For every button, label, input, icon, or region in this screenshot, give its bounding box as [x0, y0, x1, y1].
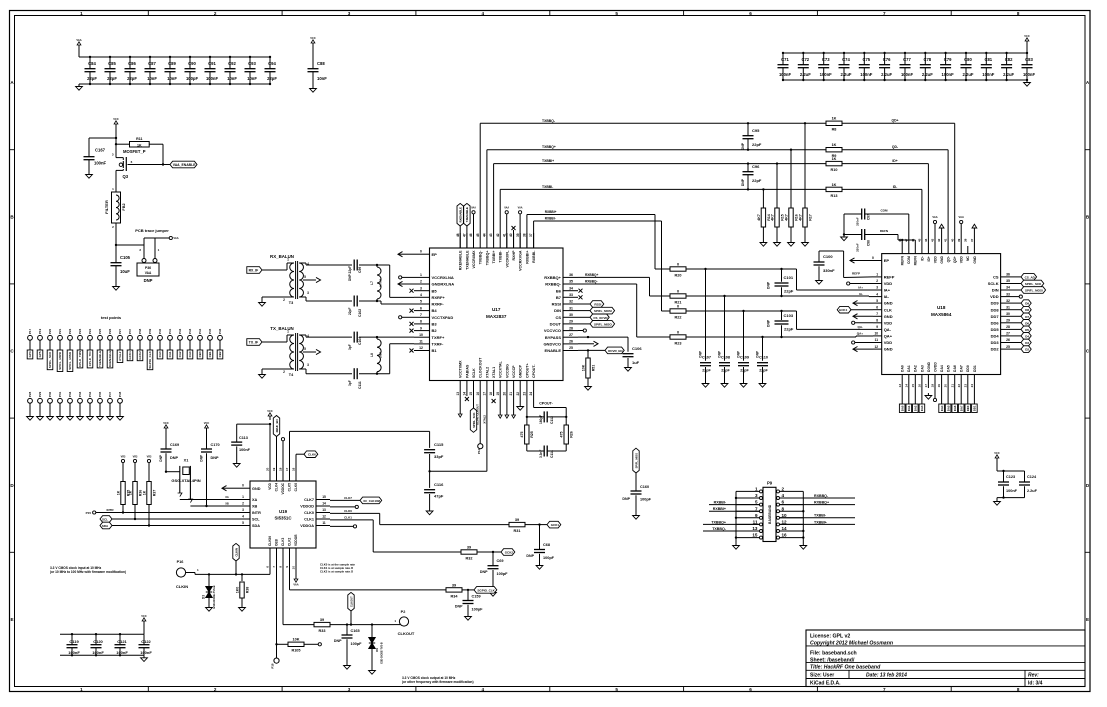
svg-text:C82: C82	[1005, 57, 1013, 62]
capacitor C103 22pF DNP	[767, 311, 794, 337]
svg-text:RXBBQ-: RXBBQ-	[585, 280, 598, 284]
svg-text:L7: L7	[370, 281, 374, 285]
svg-text:35: 35	[1006, 279, 1010, 283]
svg-text:TXBBQ+: TXBBQ+	[542, 145, 556, 149]
svg-text:3: 3	[420, 286, 422, 290]
net label D4	[1014, 333, 1031, 340]
svg-text:19: 19	[272, 467, 276, 471]
svg-text:10K: 10K	[293, 638, 300, 642]
svg-text:DD1: DD1	[973, 405, 977, 411]
svg-text:100pF: 100pF	[497, 572, 509, 576]
ground	[788, 240, 795, 246]
wire top rail	[79, 56, 270, 58]
svg-text:SI5351C: SI5351C	[274, 516, 292, 521]
svg-text:VDDOA: VDDOA	[300, 524, 314, 528]
wire CLK0	[330, 509, 509, 525]
svg-text:RSSI: RSSI	[594, 303, 601, 307]
capacitor C101 22pF DNP	[767, 269, 794, 296]
net label CLKIN	[233, 543, 239, 574]
svg-text:DIN: DIN	[992, 288, 999, 293]
resistor R14 4K7	[757, 188, 771, 240]
svg-text:SCL: SCL	[102, 518, 108, 522]
svg-text:RXRF+: RXRF+	[432, 295, 446, 300]
svg-text:38: 38	[523, 233, 527, 237]
title block	[806, 630, 1085, 687]
svg-text:ID+: ID+	[927, 256, 931, 261]
svg-text:26: 26	[1006, 338, 1010, 342]
svg-text:CLK6: CLK6	[294, 483, 298, 492]
svg-text:1: 1	[755, 487, 758, 492]
svg-text:C170: C170	[211, 443, 220, 447]
capacitor C83 100nF	[1022, 52, 1036, 81]
svg-text:TXBBI+: TXBBI+	[814, 520, 827, 524]
svg-text:22pF: 22pF	[740, 369, 749, 373]
svg-text:TXBBQ+: TXBBQ+	[711, 520, 726, 524]
svg-text:C86: C86	[128, 61, 136, 66]
svg-text:CLK4: CLK4	[275, 483, 279, 492]
net label GCK2	[501, 549, 515, 556]
hier pin GNDVCO	[578, 341, 598, 346]
net label SPIFL_MISO vert	[633, 448, 639, 491]
svg-text:C85: C85	[108, 61, 116, 66]
pin 7	[736, 506, 763, 512]
net label D9	[1014, 300, 1031, 307]
svg-text:DB2: DB2	[218, 351, 222, 357]
capacitor C105 10uF	[111, 245, 131, 284]
svg-text:100nF: 100nF	[1023, 72, 1036, 77]
svg-text:VAA: VAA	[471, 207, 476, 210]
svg-text:47: 47	[463, 233, 467, 237]
wire TXBBQ+	[487, 145, 826, 233]
svg-text:X1: X1	[184, 459, 189, 463]
svg-text:15: 15	[469, 392, 473, 396]
net label D3	[1014, 339, 1031, 346]
ground	[310, 86, 317, 92]
svg-text:D3: D3	[1025, 341, 1029, 345]
svg-text:VCC: VCC	[994, 451, 1000, 455]
svg-text:P41: P41	[168, 328, 172, 333]
svg-text:DD5: DD5	[991, 327, 1000, 332]
svg-text:VCCDIG: VCCDIG	[505, 364, 509, 378]
svg-text:CPOUT+: CPOUT+	[525, 363, 529, 378]
svg-text:5: 5	[615, 11, 618, 16]
no-connect X	[410, 349, 414, 353]
test point P34	[87, 391, 94, 420]
svg-text:3.3nF: 3.3nF	[539, 450, 543, 458]
svg-text:VDD: VDD	[884, 320, 893, 325]
svg-text:30: 30	[1006, 312, 1010, 316]
svg-text:16: 16	[476, 392, 480, 396]
svg-text:0: 0	[677, 304, 679, 308]
resistor R8 1K	[826, 117, 842, 132]
net label DA6	[952, 388, 958, 413]
svg-text:DNP: DNP	[767, 319, 771, 327]
svg-text:475: 475	[560, 432, 564, 438]
resistor R21 0	[662, 289, 873, 304]
svg-text:R22: R22	[675, 315, 682, 319]
svg-text:39: 39	[467, 545, 471, 549]
inductor L8 DNP	[370, 336, 383, 375]
svg-text:GND: GND	[884, 301, 893, 306]
capacitor C165 100pF DNP	[334, 625, 362, 663]
svg-text:0: 0	[242, 484, 244, 488]
svg-text:C106: C106	[632, 346, 642, 351]
svg-text:17: 17	[285, 467, 289, 471]
svg-text:CLKIN: CLKIN	[176, 584, 188, 589]
svg-text:DB1: DB1	[208, 351, 212, 357]
net label DA3	[187, 350, 193, 359]
net label DA7	[958, 388, 964, 413]
svg-text:4K7: 4K7	[784, 214, 788, 221]
svg-text:DA0: DA0	[901, 365, 905, 372]
wire BYPASS	[578, 336, 628, 338]
svg-text:22: 22	[957, 384, 961, 388]
svg-text:GCK1: GCK1	[551, 523, 560, 527]
svg-text:CPLD_TMS: CPLD_TMS	[78, 351, 82, 367]
svg-text:ID+: ID+	[892, 159, 897, 163]
svg-text:R31: R31	[514, 529, 521, 533]
svg-text:22pF: 22pF	[784, 327, 794, 332]
svg-text:DNP: DNP	[159, 454, 163, 462]
no-connect X	[579, 289, 583, 293]
svg-text:100pF: 100pF	[186, 76, 199, 81]
svg-text:45: 45	[476, 233, 480, 237]
svg-text:BASEBAND: BASEBAND	[768, 504, 772, 524]
svg-text:DA2: DA2	[914, 365, 918, 372]
svg-text:DNP: DNP	[526, 554, 534, 558]
text CPOUT-	[539, 402, 553, 406]
svg-text:VAA: VAA	[145, 271, 152, 275]
capacitor C120 100nF	[91, 633, 105, 657]
svg-text:C103: C103	[784, 313, 794, 318]
net label SPIFL_MISO	[578, 321, 615, 328]
svg-text:10: 10	[419, 333, 423, 337]
svg-text:P9: P9	[767, 481, 773, 486]
wire RXBBI+ P9	[709, 507, 760, 511]
ground C97C98	[841, 214, 848, 241]
svg-text:10: 10	[292, 566, 296, 570]
net label DB2	[217, 350, 223, 359]
net label RXENABLE	[107, 350, 113, 368]
svg-text:5: 5	[304, 275, 306, 279]
transistor Q3 MOSFET_P	[112, 144, 163, 192]
no-connect X	[492, 399, 496, 403]
capacitor C104 3pF	[348, 332, 362, 350]
svg-text:ESD-DIODE-TVS-B: ESD-DIODE-TVS-B	[212, 585, 216, 608]
svg-text:(or 10 MHz to 100 MHz with fir: (or 10 MHz to 100 MHz with firmware modi…	[50, 570, 126, 574]
svg-text:0: 0	[872, 256, 874, 260]
ground	[76, 84, 83, 90]
ground	[239, 605, 246, 611]
wire RXBBI+	[527, 210, 662, 269]
test point P38	[138, 328, 143, 350]
svg-text:VDDOD: VDDOD	[300, 505, 314, 509]
power flag VAA	[166, 236, 179, 240]
net label SPIFL_SCK	[470, 396, 476, 432]
svg-text:12: 12	[322, 515, 326, 519]
svg-text:EP: EP	[884, 258, 890, 263]
svg-text:CLK5: CLK5	[288, 483, 292, 492]
net label DA0	[157, 350, 163, 359]
svg-text:3: 3	[307, 291, 309, 295]
wire REFP	[844, 251, 873, 278]
diode D9 ESD	[369, 625, 384, 668]
svg-text:39: 39	[957, 238, 961, 242]
svg-text:CS_XCVR: CS_XCVR	[593, 316, 608, 320]
svg-text:B4: B4	[432, 308, 438, 313]
svg-text:Rev:: Rev:	[1028, 672, 1039, 678]
svg-text:SGPIO_CLK: SGPIO_CLK	[148, 350, 152, 368]
resistor R13 1K	[826, 183, 842, 198]
svg-text:7: 7	[883, 687, 886, 692]
svg-text:DNP: DNP	[699, 350, 703, 358]
svg-text:39: 39	[515, 518, 519, 522]
wire RXBBI- P9	[709, 501, 760, 505]
resistor R31 39	[509, 518, 547, 533]
capacitor C94 22pF	[265, 56, 278, 85]
svg-text:28: 28	[569, 326, 573, 330]
svg-text:TXBBQ-: TXBBQ-	[712, 527, 727, 531]
svg-text:P34: P34	[88, 391, 92, 396]
svg-text:42: 42	[937, 238, 941, 242]
svg-text:C169: C169	[170, 443, 179, 447]
power flag	[471, 207, 476, 249]
svg-text:D3: D3	[202, 595, 206, 599]
svg-text:2: 2	[876, 279, 878, 283]
svg-text:R13: R13	[831, 194, 838, 198]
svg-text:100nF: 100nF	[116, 650, 128, 655]
capacitor C78 2.2uF	[920, 52, 933, 81]
svg-text:DNP: DNP	[741, 142, 745, 150]
resistor R10 1K	[826, 157, 842, 172]
svg-text:DD8: DD8	[991, 307, 1000, 312]
svg-text:17: 17	[924, 384, 928, 388]
resistor R20 0	[662, 262, 686, 277]
svg-text:22pF: 22pF	[752, 178, 762, 183]
capacitor C82 2.2uF	[1001, 52, 1014, 81]
svg-text:RXBBQ+: RXBBQ+	[544, 275, 561, 280]
wire CLK5 to C115	[290, 431, 430, 467]
svg-text:VAA: VAA	[959, 215, 964, 219]
svg-text:C107: C107	[702, 356, 711, 360]
svg-text:FB2: FB2	[122, 203, 126, 210]
svg-text:P44: P44	[198, 328, 202, 333]
svg-text:P21: P21	[58, 328, 62, 333]
ground	[760, 240, 767, 246]
net label D6	[1014, 320, 1031, 327]
wire REFN	[898, 235, 915, 247]
svg-text:VCCXTAL: VCCXTAL	[499, 360, 503, 378]
svg-text:2: 2	[420, 280, 422, 284]
svg-text:43: 43	[931, 238, 935, 242]
net label GCK1 clk	[837, 306, 873, 313]
svg-text:VCCRXVGA: VCCRXVGA	[519, 250, 523, 271]
power VCC	[141, 614, 147, 634]
svg-text:100nF: 100nF	[68, 650, 80, 655]
test point P41	[168, 328, 173, 350]
svg-text:R32: R32	[466, 556, 473, 560]
svg-text:C91: C91	[208, 61, 216, 66]
wire rx bottom rail	[299, 297, 414, 304]
ground	[721, 381, 728, 387]
svg-text:VCCCP: VCCCP	[512, 365, 516, 378]
svg-text:R25: R25	[530, 431, 534, 438]
svg-text:44: 44	[924, 238, 928, 242]
svg-text:C101: C101	[784, 275, 794, 280]
svg-text:30: 30	[569, 313, 573, 317]
svg-text:19: 19	[937, 384, 941, 388]
svg-text:C100: C100	[823, 254, 833, 259]
svg-text:Q3: Q3	[123, 174, 129, 179]
net label DA2	[913, 388, 919, 413]
svg-text:FILTER: FILTER	[104, 200, 109, 214]
svg-text:13: 13	[898, 384, 902, 388]
wire top rail	[783, 52, 1027, 54]
svg-text:SPIFL_MOSI: SPIFL_MOSI	[58, 352, 62, 370]
svg-text:VR3: VR3	[133, 456, 138, 459]
svg-text:P29: P29	[38, 391, 42, 396]
svg-text:10: 10	[782, 513, 788, 518]
svg-text:SPIFL_MISO: SPIFL_MISO	[634, 453, 638, 468]
svg-text:PABIAS: PABIAS	[465, 364, 469, 378]
svg-text:C94: C94	[268, 61, 276, 66]
svg-text:B5: B5	[432, 288, 438, 293]
svg-text:24: 24	[970, 384, 974, 388]
svg-text:3pF: 3pF	[348, 380, 352, 386]
power flag pin1	[399, 276, 414, 279]
net label SDA	[100, 522, 236, 529]
svg-text:DA1: DA1	[907, 365, 911, 372]
pin 15	[736, 533, 763, 539]
test point P19	[38, 328, 43, 350]
svg-text:39: 39	[516, 233, 520, 237]
svg-text:REFP: REFP	[852, 272, 860, 276]
resistor R16 4K7	[784, 149, 798, 241]
test point P40	[158, 328, 163, 350]
pin 3	[736, 493, 763, 499]
svg-text:25: 25	[569, 346, 573, 350]
svg-text:12: 12	[419, 346, 423, 350]
svg-text:CLK1: CLK1	[304, 518, 314, 522]
ground	[625, 365, 632, 371]
svg-text:C84: C84	[88, 61, 96, 66]
svg-text:2: 2	[283, 298, 285, 302]
svg-text:22pF: 22pF	[702, 369, 711, 373]
svg-text:VDD: VDD	[268, 482, 272, 489]
svg-text:1: 1	[420, 273, 422, 277]
svg-text:C72: C72	[801, 57, 809, 62]
svg-text:0: 0	[677, 289, 679, 293]
svg-text:C87: C87	[148, 61, 156, 66]
resistor R51 10K	[581, 350, 595, 384]
svg-text:10uF: 10uF	[120, 269, 130, 274]
svg-text:27: 27	[1006, 332, 1010, 336]
capacitor C72 2.2uF	[798, 52, 811, 81]
svg-text:DA2: DA2	[914, 405, 918, 411]
svg-text:34: 34	[1006, 286, 1010, 290]
svg-text:R33: R33	[319, 629, 326, 633]
capacitor C91 100nF	[205, 56, 219, 85]
net label CPLD_TDI	[87, 350, 93, 368]
svg-text:P18: P18	[271, 663, 275, 668]
svg-text:C113: C113	[239, 436, 248, 440]
svg-text:C68: C68	[543, 543, 550, 547]
net label DB0	[197, 350, 203, 359]
svg-text:DA6: DA6	[953, 365, 957, 372]
capacitor C81 100nF	[981, 52, 995, 81]
svg-text:330nF: 330nF	[856, 243, 860, 252]
pin 13	[736, 526, 763, 532]
svg-text:4K7: 4K7	[798, 214, 802, 221]
svg-text:1: 1	[80, 687, 83, 692]
capacitor C99 22pF DNP	[348, 260, 362, 282]
svg-text:COM: COM	[907, 256, 911, 264]
svg-text:DNP: DNP	[767, 281, 771, 289]
svg-text:QD-: QD-	[947, 256, 951, 262]
svg-text:R34: R34	[451, 594, 459, 598]
svg-text:330nF: 330nF	[856, 217, 860, 226]
capacitor C102 22pF	[348, 296, 362, 318]
svg-text:9: 9	[755, 513, 758, 518]
svg-text:C93: C93	[248, 61, 256, 66]
test point P44	[198, 328, 203, 350]
capacitor C76 2.2uF	[879, 52, 892, 81]
svg-text:C74: C74	[842, 57, 850, 62]
svg-text:14: 14	[463, 392, 467, 396]
svg-text:XBUF_EN: XBUF_EN	[275, 419, 279, 432]
capacitor C124 2.2uF	[997, 471, 1038, 498]
svg-text:DA3: DA3	[920, 405, 924, 411]
svg-text:DNP: DNP	[200, 454, 204, 462]
svg-text:6: 6	[749, 687, 752, 692]
power flag VDDOA	[330, 525, 357, 528]
svg-text:45: 45	[918, 238, 922, 242]
svg-text:2.2uF: 2.2uF	[1027, 489, 1038, 493]
test point P45	[208, 328, 213, 350]
ground	[344, 663, 351, 669]
svg-text:RXBBQ-: RXBBQ-	[545, 282, 561, 287]
svg-text:P14: P14	[477, 448, 481, 453]
net label CLK6	[296, 451, 318, 467]
svg-text:C89: C89	[168, 61, 176, 66]
svg-text:C105: C105	[120, 255, 131, 260]
net label D2	[1014, 346, 1031, 353]
ground	[206, 605, 213, 611]
net label SPIFL_SCK	[1014, 280, 1044, 287]
wire TXBBI-	[500, 185, 826, 233]
svg-text:ID-: ID-	[893, 185, 898, 189]
svg-text:RXBBI+: RXBBI+	[545, 210, 557, 214]
svg-text:33pF: 33pF	[434, 454, 444, 459]
svg-text:5: 5	[755, 500, 758, 505]
svg-text:R51: R51	[591, 365, 595, 372]
svg-text:P45: P45	[208, 328, 212, 333]
power VCC	[113, 117, 119, 144]
svg-text:100nF: 100nF	[239, 448, 251, 452]
hier pin GND7	[853, 314, 873, 319]
svg-text:DA5: DA5	[946, 405, 950, 411]
svg-text:GCK2: GCK2	[138, 351, 142, 360]
svg-text:2.2uF: 2.2uF	[841, 72, 852, 77]
svg-text:8: 8	[1017, 687, 1020, 692]
svg-text:13: 13	[456, 392, 460, 396]
power down VCCXTAL	[498, 396, 502, 418]
svg-text:CLK0: CLK0	[304, 511, 314, 515]
resistor R33 39	[314, 618, 394, 633]
svg-text:XTAL2: XTAL2	[482, 415, 486, 424]
ground GNDCP	[517, 396, 524, 410]
net label XC_CLK	[330, 496, 382, 504]
